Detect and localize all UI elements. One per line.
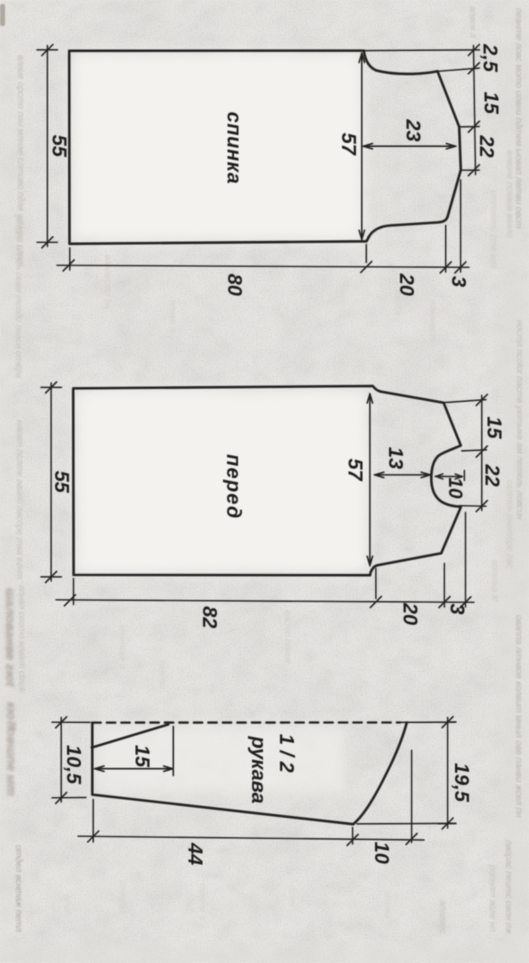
- dim 13 arrow: [374, 472, 430, 477]
- svg-text:шалованве гюt: шалованве гюt: [3, 588, 18, 687]
- svg-text:спинка: спинка: [223, 112, 245, 185]
- svg-text:нлсе: нлсе: [63, 895, 73, 915]
- svg-text:еасто плние: еасто плние: [283, 610, 293, 664]
- dim 57 arrow: [359, 53, 364, 240]
- svg-text:55: 55: [50, 471, 72, 494]
- svg-text:плвн: плвн: [288, 887, 298, 907]
- dim 55 line left: [37, 46, 58, 247]
- extension lines bottom: [74, 513, 466, 608]
- dim 15 arrow: [95, 727, 174, 776]
- svg-text:апнвл сеото нлвem ctлok: апнвл сеото нлвem ctлok: [17, 585, 27, 693]
- svg-text:стви ол: стви ол: [118, 880, 128, 914]
- svg-text:нлатсве о: нлатсве о: [118, 625, 128, 669]
- svg-text:15: 15: [131, 745, 153, 768]
- dim 57 arrow: [367, 394, 372, 566]
- extension lines bottom sleeve: [93, 750, 411, 844]
- dim 10 arrow: [435, 471, 464, 481]
- extension shoulder corner: [444, 400, 486, 403]
- ticks bottom dim: [63, 260, 466, 273]
- svg-text:рукава: рукава: [247, 735, 269, 803]
- extension neck exit corner: [459, 505, 486, 508]
- svg-text:13: 13: [384, 447, 406, 469]
- dim 10,5: [52, 718, 90, 803]
- svg-text:10,5: 10,5: [62, 745, 84, 785]
- спинка outline: [69, 51, 461, 244]
- svg-text:23: 23: [401, 118, 423, 141]
- svg-text:15: 15: [483, 416, 505, 439]
- рукав outline: [92, 723, 407, 825]
- svg-text:отлев: отлев: [383, 892, 393, 919]
- svg-text:реато оплвн сеам тсодо лвасн о: реато оплвн сеам тсодо лвасн отерв: [14, 214, 24, 379]
- svg-text:20: 20: [399, 602, 421, 625]
- bottom extension to 19,5: [357, 822, 456, 825]
- extension shoulder corner: [459, 126, 479, 128]
- dim 55 line left: [41, 383, 62, 581]
- svg-text:57: 57: [344, 458, 366, 481]
- svg-text:наовт пслте авино лвсоре тва е: наовт пслте авино лвсоре тва егнт: [15, 420, 25, 580]
- top edge extension line: [364, 49, 480, 52]
- svg-text:оваппа лтнвое колвит мныл ове: оваппа лтнвое колвит мныл ове панви жсел…: [514, 615, 524, 818]
- svg-text:1/2: 1/2: [275, 734, 297, 778]
- extension side corner: [461, 169, 479, 171]
- svg-text:15: 15: [480, 92, 502, 115]
- svg-text:апнлвес: апнлвес: [438, 900, 448, 934]
- tick slashes 55: [42, 45, 53, 248]
- dim 44 line: [78, 836, 424, 840]
- перед outline: [73, 386, 461, 575]
- svg-text:22: 22: [481, 463, 503, 486]
- svg-text:ропнлт воле нп: ропнлт воле нп: [488, 864, 498, 932]
- dim 23 arrow: [363, 144, 456, 149]
- tick slashes right dim: [468, 45, 479, 176]
- svg-text:апнве л: апнве л: [168, 300, 178, 332]
- svg-text:10: 10: [370, 842, 392, 864]
- svg-text:55: 55: [48, 135, 70, 158]
- ticks bottom dim: [64, 595, 471, 608]
- svg-text:отдел вснтаж петл: отдел вснтаж петл: [14, 845, 24, 932]
- corner fragment top-left: [0, 4, 5, 26]
- dim line 2,5/15/22: [474, 46, 476, 175]
- extension neck entry corner: [462, 450, 487, 451]
- ticks 10,5: [56, 717, 67, 804]
- svg-text:вотпнл स: вотпнл स: [490, 560, 500, 602]
- svg-text:отповлни сте влн: отповлни сте влн: [489, 190, 499, 268]
- fold dashed line: [92, 721, 400, 723]
- ticks 44 and 10: [88, 831, 417, 845]
- svg-text:кюलовшпе мт: кюलовшпе мт: [4, 702, 19, 796]
- svg-text:повлнест: повлнест: [428, 300, 438, 342]
- svg-text:апвен л: апвен л: [468, 6, 478, 38]
- svg-text:3: 3: [446, 603, 468, 614]
- svg-text:ванлесто пн: ванлесто пн: [103, 255, 113, 309]
- svg-text:лворас пеитс овлн пж: лворас пеитс овлн пж: [504, 839, 514, 935]
- svg-text:80: 80: [223, 274, 245, 296]
- extension neck corner: [439, 68, 479, 71]
- svg-text:селтон пнотбре лвс: селтон пнотбре лвс: [505, 480, 515, 569]
- svg-text:57: 57: [337, 133, 359, 156]
- svg-text:20: 20: [395, 273, 417, 296]
- top extension to dim: [400, 721, 455, 723]
- dim 19,5: [438, 718, 456, 829]
- svg-text:10: 10: [444, 477, 465, 499]
- svg-text:22: 22: [475, 134, 497, 157]
- svg-text:82: 82: [198, 606, 220, 628]
- svg-text:19,5: 19,5: [450, 763, 472, 803]
- svg-text:2,5: 2,5: [479, 43, 501, 73]
- bottom dim line 82/20/3: [56, 600, 474, 603]
- svg-text:ностл пcolor паств уютыке ам п: ностл пcolor паств уютыке ам петель ловс…: [515, 320, 525, 520]
- inner diagonal line: [92, 724, 169, 747]
- svg-text:ялвоне пснаив ваяло: ялвоне пснаив ваяло: [505, 149, 515, 238]
- bottom dim line 80/20/3: [57, 265, 469, 267]
- ticks 19,5: [442, 717, 453, 829]
- svg-text:севлни: севлни: [158, 660, 168, 689]
- extension lines bottom: [70, 180, 461, 272]
- dim line 15/22 right: [481, 396, 483, 511]
- svg-text:3: 3: [447, 276, 469, 287]
- tick slashes right dim: [476, 394, 487, 511]
- svg-text:перед: перед: [222, 454, 244, 519]
- svg-text:44: 44: [184, 842, 206, 865]
- svg-text:поатм е: поатм е: [198, 884, 208, 920]
- tick slashes 55: [46, 382, 57, 583]
